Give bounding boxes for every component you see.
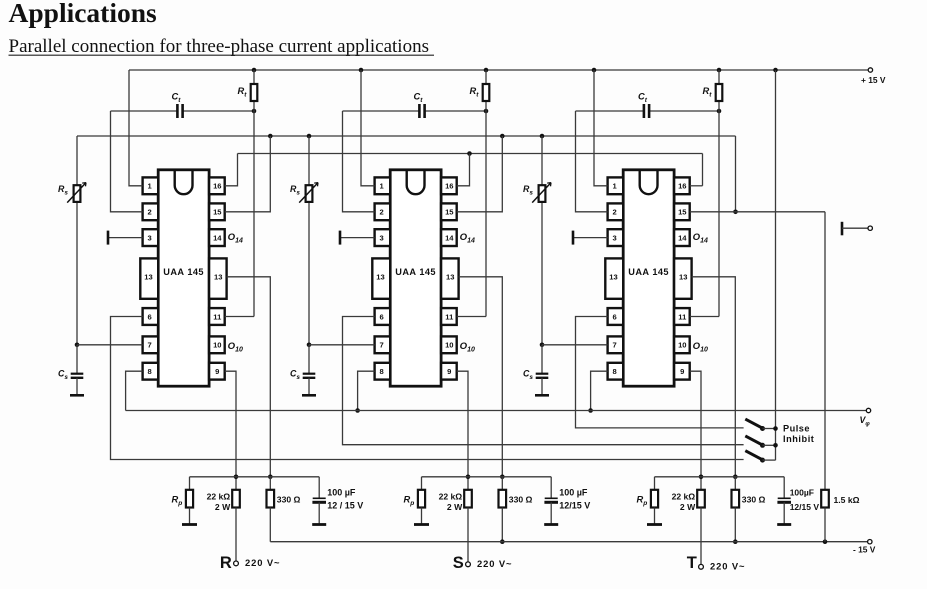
U2 pin 15: [441, 203, 457, 220]
wire 100uF 2 tail: [550, 502, 552, 524]
svg-text:11: 11: [678, 312, 687, 321]
wire U1 pin15 link: [225, 136, 271, 212]
wire U2 pin6 to pulse-inhibit bus: [343, 317, 744, 445]
wire U1 pin8 drop: [126, 371, 143, 410]
switch pulse-inhibit 2 contact dot: [760, 443, 765, 448]
switch pulse-inhibit 3 contact dot: [760, 458, 765, 463]
wire 330R 3 to -15V bus: [734, 508, 736, 542]
terminal sync input bar: [841, 222, 844, 236]
wire U1 pin7: [77, 344, 143, 346]
subtitle underline: [9, 54, 435, 56]
svg-text:6: 6: [612, 312, 616, 321]
resistor Rp1 body: [186, 490, 193, 508]
svg-text:O10: O10: [693, 341, 708, 354]
capacitor Ct2 plates: [418, 104, 421, 118]
svg-text:UAA 145: UAA 145: [163, 267, 204, 277]
U1 pin 8: [143, 363, 159, 380]
resistor Rt3 column: [718, 70, 720, 317]
wire Rp1 hanger: [189, 477, 191, 490]
svg-text:- 15 V: - 15 V: [853, 545, 876, 555]
svg-text:330 Ω: 330 Ω: [277, 494, 301, 504]
svg-text:11: 11: [445, 312, 454, 321]
wire 330R 2 riser: [501, 477, 503, 490]
resistor 22k R1 body: [232, 490, 240, 508]
svg-text:16: 16: [678, 182, 686, 191]
svg-text:10: 10: [213, 341, 221, 350]
node +15V rail junction dots: [252, 68, 257, 73]
wire 100uF 3 tail: [783, 502, 785, 524]
svg-text:2: 2: [612, 208, 616, 217]
node U3 pin7 junction: [540, 343, 545, 348]
svg-text:O14: O14: [460, 232, 475, 245]
wire U2 pin3 stub: [340, 237, 375, 239]
op-amp U1 UAA 145 body: [158, 170, 209, 386]
ground 100uF 3 bar: [777, 523, 791, 526]
ground Cs3 bar: [535, 394, 549, 397]
svg-text:+ 15 V: + 15 V: [861, 75, 886, 85]
svg-text:100 µF: 100 µF: [559, 487, 588, 497]
capacitor Cs3 plates: [536, 373, 549, 375]
U3 pin 15: [674, 203, 690, 220]
capacitor 100uF 1 plates: [313, 497, 326, 499]
wire U3 pin1 to +15V rail: [594, 70, 608, 186]
op-amp U2 UAA 145 body: [390, 170, 441, 386]
svg-text:13: 13: [144, 273, 152, 282]
U3 pin 6: [608, 308, 624, 325]
svg-text:Rp: Rp: [637, 495, 648, 508]
svg-text:15: 15: [445, 208, 454, 217]
potentiometer Rs3 body: [539, 185, 546, 202]
wire U1 pin13 to output column: [227, 277, 271, 477]
U2 pin 13: [441, 258, 459, 298]
wire switch 2 to common: [763, 444, 776, 446]
wire Cs3 riser: [541, 345, 543, 374]
svg-text:Rt: Rt: [238, 86, 248, 99]
svg-text:13: 13: [376, 273, 384, 282]
U1 pin 3: [143, 229, 159, 246]
terminal R 220V: [234, 561, 239, 566]
terminal sync input circle: [868, 226, 872, 230]
svg-text:220 V~: 220 V~: [477, 558, 512, 569]
U2 notch: [407, 171, 425, 194]
svg-text:O10: O10: [460, 341, 475, 354]
ground Rp2 bar: [414, 523, 429, 526]
wire U1 pin1 to +15V rail: [129, 70, 143, 186]
resistor Rt3 body: [716, 84, 723, 101]
node pin15-rail dots: [268, 134, 273, 139]
svg-text:3: 3: [379, 233, 383, 242]
wire 22k R1 to terminal: [235, 508, 237, 561]
wire 22k R3 to terminal: [700, 508, 702, 565]
U2 pin 8: [375, 363, 391, 380]
wire U3 pin6 to pulse-inhibit bus: [576, 317, 744, 428]
svg-text:2 W: 2 W: [215, 502, 231, 512]
node Ct3-Rt3 junction: [717, 109, 722, 114]
svg-text:R: R: [220, 554, 232, 572]
svg-text:11: 11: [213, 312, 222, 321]
resistor 330R 1 body: [267, 490, 275, 508]
wire Rp2 hanger: [421, 477, 423, 490]
switch pulse-inhibit 3 blade: [745, 451, 762, 460]
wire switch 3 to common: [763, 459, 776, 461]
svg-text:Cs: Cs: [290, 369, 300, 382]
U1 pin 7: [143, 336, 159, 353]
svg-text:8: 8: [379, 367, 383, 376]
svg-text:Cs: Cs: [58, 369, 68, 382]
node 330R 2 -15V junction: [500, 539, 505, 544]
node 330R 2 tops-bus junction: [500, 475, 505, 480]
terminal T 220V: [699, 564, 704, 569]
U2 pin 7: [375, 336, 391, 353]
node switch 2 common junction: [773, 443, 778, 448]
svg-text:Rt: Rt: [703, 86, 713, 99]
wire U2 pin9 to mains column: [457, 371, 468, 490]
wire U3 pin7: [542, 344, 608, 346]
svg-text:Ct: Ct: [638, 92, 648, 105]
wire U3 pin2 riser: [576, 111, 608, 212]
svg-text:220 V~: 220 V~: [710, 561, 745, 572]
svg-text:7: 7: [612, 341, 616, 350]
wire sync input: [842, 227, 868, 229]
svg-text:Cs: Cs: [523, 369, 533, 382]
wire Cs2 riser: [308, 345, 310, 374]
svg-text:O14: O14: [693, 232, 708, 245]
node U2 pin7 junction: [307, 343, 312, 348]
U2 pin 6: [375, 308, 391, 325]
wire pin8 output bus to Vp: [126, 410, 867, 412]
U3 pin 11: [674, 308, 690, 325]
svg-text:12/15 V: 12/15 V: [559, 500, 590, 510]
svg-text:S: S: [453, 554, 464, 572]
svg-text:22 kΩ: 22 kΩ: [207, 492, 231, 502]
U3 pin 13: [674, 258, 692, 298]
terminal +15V: [868, 68, 872, 72]
wire pin16 bus rail (y153.5): [238, 153, 703, 155]
U3 pin 1: [608, 177, 624, 194]
ground Rp3 bar: [647, 523, 662, 526]
U2 pin 13: [372, 258, 390, 298]
svg-text:12/15 V: 12/15 V: [790, 502, 820, 512]
svg-text:2: 2: [379, 208, 383, 217]
potentiometer Rs2 column: [308, 136, 310, 345]
U2 pin 11: [441, 308, 457, 325]
node 1.5k -15V junction: [823, 539, 828, 544]
svg-text:22 kΩ: 22 kΩ: [672, 492, 696, 502]
switch pulse-inhibit 1 blade: [745, 419, 762, 428]
wire 330R 2 to -15V bus: [501, 508, 503, 542]
node U1 pin9 tops-bus junction: [234, 475, 239, 480]
wire Ct3 horizontal: [576, 110, 644, 112]
svg-text:100µF: 100µF: [790, 487, 814, 497]
wire U1 pin3 stub: [108, 237, 143, 239]
U3 pin 7: [608, 336, 624, 353]
wire 22k R2 to terminal: [467, 508, 469, 562]
U1 pin 13: [140, 258, 158, 298]
svg-text:Vφ: Vφ: [860, 415, 871, 428]
svg-text:8: 8: [612, 367, 616, 376]
svg-text:Inhibit: Inhibit: [783, 434, 814, 444]
svg-text:Rs: Rs: [290, 184, 300, 197]
node U2 pin9 tops-bus junction: [466, 475, 471, 480]
svg-text:14: 14: [678, 233, 687, 242]
ground Cs2 bar: [302, 394, 316, 397]
wire pulse inhibit common riser: [775, 70, 777, 460]
wire Cs1 riser: [76, 345, 78, 374]
wire U2 pin11 riser: [457, 316, 486, 318]
svg-text:2 W: 2 W: [680, 502, 696, 512]
wire pin16 rail right bend down to IC3 pin16: [702, 154, 704, 186]
svg-text:22 kΩ: 22 kΩ: [439, 492, 463, 502]
wire U2 pin1 to +15V rail: [361, 70, 375, 186]
svg-text:T: T: [687, 554, 697, 572]
U2 pin 1: [375, 177, 391, 194]
wire Cs3 tail: [541, 378, 543, 396]
svg-text:O10: O10: [228, 341, 243, 354]
capacitor Ct1 plates: [176, 104, 179, 118]
node pin8 bus junction U2: [355, 408, 360, 413]
U2 pin 3: [375, 229, 391, 246]
resistor Rt2 column: [485, 70, 487, 317]
wire Rp3 hanger: [654, 477, 656, 490]
wire pin15 bus rail (y136): [77, 135, 736, 137]
U1 pin 16: [209, 177, 225, 194]
svg-text:330 Ω: 330 Ω: [742, 494, 766, 504]
wire Ct2 horizontal: [343, 110, 420, 112]
wire divider tops bus 2: [422, 476, 552, 478]
svg-text:13: 13: [679, 273, 687, 282]
wire 100uF 1 tail: [318, 502, 320, 524]
resistor 330R 2 body: [499, 490, 507, 508]
wire divider tops bus 3: [655, 476, 785, 478]
wire 100uF 3 hanger: [783, 477, 785, 498]
svg-text:2: 2: [147, 208, 151, 217]
svg-text:Rp: Rp: [172, 495, 183, 508]
U3 pin 9: [674, 363, 690, 380]
node 330R 3 -15V junction: [733, 539, 738, 544]
U1 pin 6: [143, 308, 159, 325]
svg-text:Ct: Ct: [172, 92, 182, 105]
capacitor 100uF 2 plates: [545, 497, 558, 499]
svg-text:13: 13: [446, 273, 454, 282]
resistor 330R 3 body: [732, 490, 740, 508]
ground Cs1 bar: [70, 394, 84, 397]
wire switch 1 to common: [763, 428, 776, 430]
svg-text:Rs: Rs: [58, 184, 68, 197]
U3 pin 14: [674, 229, 690, 246]
wire 330R 1 riser: [269, 477, 271, 490]
wire U2 pin13 to output column: [459, 277, 503, 477]
wire 100uF 1 hanger: [318, 477, 320, 498]
node pin16-rail dot at IC2 riser: [467, 151, 472, 156]
svg-text:10: 10: [678, 341, 686, 350]
wire U2 pin8 drop: [358, 371, 375, 410]
svg-text:7: 7: [147, 341, 151, 350]
svg-text:12 / 15 V: 12 / 15 V: [327, 500, 363, 510]
wire 330R 3 riser: [734, 477, 736, 490]
potentiometer Rs1 body: [74, 185, 81, 202]
U3 notch: [640, 171, 658, 194]
svg-text:7: 7: [379, 341, 383, 350]
potentiometer Rs2 arrow: [299, 183, 318, 203]
potentiometer Rs1 arrow: [67, 183, 86, 203]
svg-text:9: 9: [680, 367, 684, 376]
U1 pin 2: [143, 203, 159, 220]
capacitor 100uF 3 plates: [778, 497, 791, 499]
U2 pin 9: [441, 363, 457, 380]
resistor 22k R2 body: [464, 490, 472, 508]
U1 pin 11: [209, 308, 225, 325]
potentiometer Rs3 column: [541, 136, 543, 345]
switch pulse-inhibit 2 blade: [745, 436, 762, 445]
U1 pin 10: [209, 336, 225, 353]
resistor Rt2 body: [483, 84, 490, 101]
resistor Rp2 body: [418, 490, 425, 508]
ground 100uF 1 bar: [312, 523, 326, 526]
node Ct1-Rt1 junction: [252, 109, 257, 114]
svg-text:O14: O14: [228, 232, 243, 245]
potentiometer Rs3 arrow: [532, 183, 551, 203]
wire divider tops bus 1: [190, 476, 320, 478]
wire +15V supply rail: [129, 69, 868, 71]
svg-text:6: 6: [379, 312, 383, 321]
U1 pin 15: [209, 203, 225, 220]
wire U3 pin16 riser: [690, 185, 703, 187]
svg-text:9: 9: [447, 367, 451, 376]
svg-text:Parallel connection for three-: Parallel connection for three-phase curr…: [9, 36, 429, 57]
wire U1 pin9 to mains column: [225, 371, 236, 490]
svg-text:3: 3: [612, 233, 616, 242]
wire U2 pin15 link: [457, 136, 503, 212]
wire U3 pin3 stub: [573, 237, 608, 239]
svg-text:UAA 145: UAA 145: [628, 267, 669, 277]
capacitor Cs2 plates: [303, 373, 316, 375]
capacitor Ct3 plates: [643, 104, 646, 118]
svg-text:Rt: Rt: [470, 86, 480, 99]
switch pulse-inhibit 1 contact dot: [760, 426, 765, 431]
U2 pin 10: [441, 336, 457, 353]
resistor 22k R3 body: [697, 490, 705, 508]
U3 pin 16: [674, 177, 690, 194]
U3 pin 2: [608, 203, 624, 220]
wire U2 pin16 riser: [457, 154, 470, 186]
potentiometer Rs1 column: [76, 136, 78, 345]
wire U1 pin11 riser: [225, 316, 254, 318]
wire -15V bus: [270, 541, 867, 543]
ground 100uF 2 bar: [544, 523, 558, 526]
svg-text:13: 13: [609, 273, 617, 282]
wire 100uF 2 hanger: [550, 477, 552, 498]
svg-text:Rp: Rp: [404, 495, 415, 508]
svg-text:14: 14: [213, 233, 222, 242]
wire Ct1 horizontal: [111, 110, 178, 112]
wire U1 pin6 to pulse-inhibit bus: [111, 317, 744, 460]
svg-text:3: 3: [147, 233, 151, 242]
svg-text:9: 9: [215, 367, 219, 376]
U3 pin 13: [605, 258, 623, 298]
wire 330R 1 to -15V bus: [269, 508, 271, 542]
svg-text:15: 15: [213, 208, 222, 217]
terminal Vp: [866, 408, 870, 412]
wire Rp2 tail: [421, 508, 423, 525]
U1 pin 14: [209, 229, 225, 246]
svg-text:Applications: Applications: [9, 0, 158, 28]
wire U3 pin11 riser: [690, 316, 719, 318]
U1 pin 13: [209, 258, 227, 298]
wire U3 pin8 drop: [591, 371, 608, 410]
svg-text:UAA 145: UAA 145: [395, 267, 436, 277]
U3 pin 10: [674, 336, 690, 353]
svg-text:16: 16: [445, 182, 453, 191]
svg-text:220 V~: 220 V~: [245, 557, 280, 568]
U2 pin 2: [375, 203, 391, 220]
wire Cs1 tail: [76, 378, 78, 396]
resistor 1.5k body: [821, 490, 829, 508]
svg-text:13: 13: [214, 273, 222, 282]
wire U3 pin9 to mains column: [690, 371, 701, 490]
svg-text:100 µF: 100 µF: [327, 487, 356, 497]
svg-text:6: 6: [147, 312, 151, 321]
wire Rp1 tail: [189, 508, 191, 525]
terminal U1 pin3 bar: [107, 231, 110, 245]
U2 pin 16: [441, 177, 457, 194]
svg-text:15: 15: [678, 208, 687, 217]
U1 pin 9: [209, 363, 225, 380]
ground Rp1 bar: [182, 523, 197, 526]
wire U2 pin7: [309, 344, 375, 346]
U2 pin 14: [441, 229, 457, 246]
node 330R 3 tops-bus junction: [733, 475, 738, 480]
wire U2 pin2 riser: [343, 111, 375, 212]
U1 pin 1: [143, 177, 159, 194]
wire U1 pin16 riser: [225, 154, 238, 186]
wire 1.5k column from U3 pin15: [824, 212, 826, 490]
resistor Rt1 body: [251, 84, 258, 101]
terminal S 220V: [466, 562, 471, 567]
terminal U3 pin3 bar: [572, 231, 575, 245]
U3 pin 3: [608, 229, 624, 246]
wire Cs2 tail: [308, 378, 310, 396]
op-amp U3 UAA 145 body: [623, 170, 674, 386]
node pin8 bus junction U3: [588, 408, 593, 413]
wire U3 pin13 to output column: [692, 277, 736, 477]
svg-text:14: 14: [445, 233, 454, 242]
svg-text:2 W: 2 W: [447, 502, 463, 512]
capacitor Cs1 plates: [71, 373, 84, 375]
svg-text:1.5 kΩ: 1.5 kΩ: [834, 495, 860, 505]
wire pin15 rail right bend down to IC3 pin15: [735, 136, 737, 212]
node U1 pin7 junction: [75, 343, 80, 348]
wire U1 pin2 riser: [111, 111, 143, 212]
svg-text:8: 8: [147, 367, 151, 376]
svg-text:Ct: Ct: [414, 92, 424, 105]
node U3 pin9 tops-bus junction: [699, 475, 704, 480]
svg-text:330 Ω: 330 Ω: [509, 494, 533, 504]
terminal -15V: [868, 540, 872, 544]
wire Rp3 tail: [654, 508, 656, 525]
node Ct2-Rt2 junction: [484, 109, 489, 114]
svg-text:Pulse: Pulse: [783, 424, 810, 434]
potentiometer Rs2 body: [306, 185, 313, 202]
svg-text:Rs: Rs: [523, 184, 533, 197]
node 330R 1 tops-bus junction: [268, 475, 273, 480]
node switch 1 common junction: [773, 426, 778, 431]
wire U3 pin15 link: [690, 211, 825, 213]
resistor Rp3 body: [651, 490, 658, 508]
svg-text:16: 16: [213, 182, 221, 191]
wire 1.5k tail: [824, 508, 826, 542]
U3 pin 8: [608, 363, 624, 380]
terminal U2 pin3 bar: [339, 231, 342, 245]
